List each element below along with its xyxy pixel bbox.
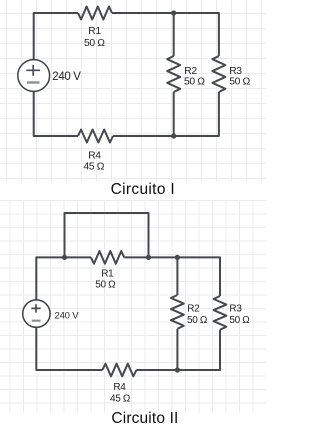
wire: R2 middle branch lower (circuit II) — [176, 329, 178, 370]
resistor R2 — [167, 56, 180, 92]
wire: bottom wire (R4 to bottom-left corner) + left wire to source (circuit II) — [36, 327, 102, 370]
wire: right branch lower + bottom wire (corner to R4) — [113, 92, 219, 136]
svg-text:45 Ω: 45 Ω — [84, 162, 105, 173]
svg-text:45 Ω: 45 Ω — [110, 393, 131, 404]
resistor R4 — [78, 130, 113, 143]
wire: main wire (R1 to main-right corner) + right branch upper (circuit II) — [124, 257, 220, 296]
wire: bottom wire (R4 to bottom-left corner) + left wire to source — [34, 92, 78, 137]
node junction bottom of R2 (circuit II) — [175, 367, 180, 372]
svg-text:50 Ω: 50 Ω — [84, 38, 105, 49]
resistor R1 (circuit II) — [91, 251, 124, 264]
node junction top of R2 (circuit II) — [175, 255, 180, 260]
svg-text:R1: R1 — [101, 269, 114, 280]
svg-text:240 V: 240 V — [52, 71, 81, 83]
wire: R2 middle branch lower — [173, 92, 175, 136]
voltage source plus sign — [26, 65, 40, 76]
node junction bottom of R2 — [171, 133, 176, 138]
svg-text:Circuito I: Circuito I — [111, 181, 175, 198]
svg-text:50 Ω: 50 Ω — [187, 315, 208, 326]
svg-text:R1: R1 — [88, 26, 101, 37]
voltage source minus sign (circuit II) — [32, 320, 41, 322]
wire: R2 middle branch upper — [173, 13, 175, 56]
svg-text:R2: R2 — [187, 304, 200, 315]
wire: bypass rectangle over R1 — [65, 213, 149, 257]
svg-text:50 Ω: 50 Ω — [229, 315, 250, 326]
svg-text:R2: R2 — [184, 66, 197, 77]
voltage source V2 240V circle (circuit II) — [23, 300, 50, 327]
node junction top of R2 — [171, 10, 176, 15]
node junction bypass left foot — [62, 255, 67, 260]
resistor R3 (circuit II) — [214, 296, 227, 330]
svg-text:240 V: 240 V — [55, 311, 80, 322]
voltage source V1 240V circle — [18, 60, 50, 92]
node junction bypass right foot — [146, 255, 151, 260]
wire: left + main wire (source to R1, circuit II) — [36, 257, 91, 300]
svg-text:R3: R3 — [229, 304, 242, 315]
grid bottom sheet — [0, 200, 266, 413]
resistor R1 — [78, 7, 112, 20]
svg-text:Circuito II: Circuito II — [111, 410, 178, 427]
voltage source minus sign — [27, 81, 40, 83]
voltage source plus sign (circuit II) — [31, 304, 40, 312]
svg-text:R3: R3 — [229, 66, 242, 77]
resistor R2 (circuit II) — [171, 295, 184, 329]
svg-text:50 Ω: 50 Ω — [95, 280, 116, 291]
resistor R3 — [212, 56, 225, 92]
svg-text:50 Ω: 50 Ω — [184, 76, 205, 87]
wire: right branch lower + bottom wire to R4 (circuit II) — [136, 330, 220, 370]
wire: left + top wire (source to R1) — [34, 13, 78, 60]
wire: R2 middle branch upper (circuit II) — [176, 257, 178, 295]
svg-text:R4: R4 — [113, 382, 126, 393]
grid top sheet — [0, 0, 266, 182]
svg-text:50 Ω: 50 Ω — [229, 76, 250, 87]
wire: top wire (R1 to top-right corner) + right branch upper — [112, 13, 219, 56]
svg-text:R4: R4 — [88, 151, 101, 162]
resistor R4 (circuit II) — [102, 364, 136, 377]
